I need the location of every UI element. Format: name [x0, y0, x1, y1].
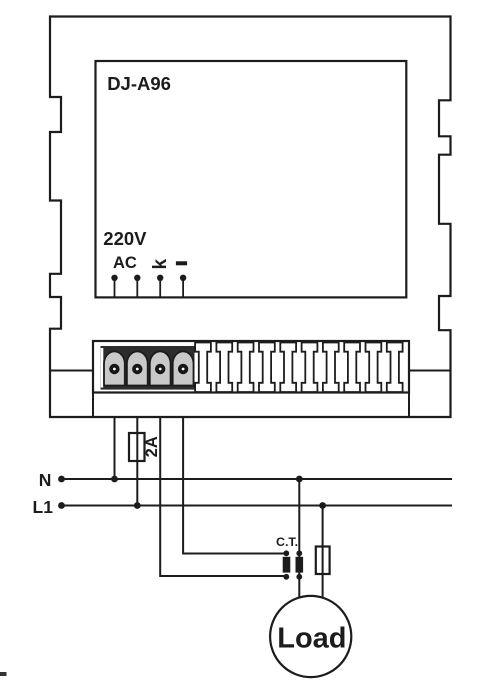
wire from L1 through fuse F2 to load: [322, 506, 324, 601]
pin AC1: [111, 275, 117, 298]
screw terminal 3 (k): [150, 351, 171, 385]
line N: [60, 478, 452, 480]
terminal strip box: [93, 341, 409, 393]
CT primary wire (N branch to load): [298, 479, 300, 600]
wire from terminal AC2 to fuse and L1: [136, 417, 138, 506]
svg-text:k: k: [150, 258, 171, 269]
wire from terminal l to CT terminal l: [183, 417, 286, 554]
label l (CT secondary, rotated): [176, 261, 187, 265]
meter housing DJ-A96 rear outline: [50, 17, 451, 418]
unused terminal slots (10 I-beam openings): [195, 343, 402, 393]
svg-text:AC: AC: [113, 254, 137, 272]
page edge mark: [0, 672, 7, 676]
CT primary bar: [296, 550, 304, 579]
housing recess wall left: [92, 341, 94, 417]
screw terminal 1 (AC): [104, 351, 125, 385]
node L1 / fuse branch junction: [319, 502, 326, 509]
wire from terminal k to CT terminal k: [160, 417, 286, 576]
housing shelf line right: [409, 370, 451, 372]
line L1: [60, 505, 452, 507]
pin k: [157, 275, 163, 298]
node L1 / AC2 junction: [134, 502, 141, 509]
fuse F2: [316, 547, 330, 575]
screw terminal block (4-way): [101, 346, 195, 390]
svg-text:C.T.: C.T.: [276, 535, 298, 549]
svg-text:N: N: [39, 470, 52, 490]
node L1 start: [58, 502, 65, 509]
svg-text:2A: 2A: [143, 436, 161, 457]
screw terminal 2 (AC): [127, 351, 148, 385]
housing recess wall right: [408, 341, 410, 417]
node N / AC1 junction: [111, 476, 118, 483]
pin AC2: [134, 275, 140, 298]
fuse F1 2A: [129, 433, 145, 461]
pin l: [180, 275, 186, 298]
load circle: [270, 596, 351, 677]
panel face rectangle: [96, 61, 407, 297]
housing shelf line left: [50, 370, 93, 372]
wire from terminal AC1 to N: [114, 417, 116, 479]
node N start: [58, 476, 65, 483]
svg-text:Load: Load: [277, 622, 346, 654]
svg-text:DJ-A96: DJ-A96: [107, 73, 171, 94]
CT secondary bar: [283, 550, 291, 579]
node N / load branch junction: [296, 476, 303, 483]
screw terminal 4 (l): [173, 351, 194, 385]
svg-text:L1: L1: [33, 497, 54, 517]
svg-text:220V: 220V: [103, 228, 147, 249]
